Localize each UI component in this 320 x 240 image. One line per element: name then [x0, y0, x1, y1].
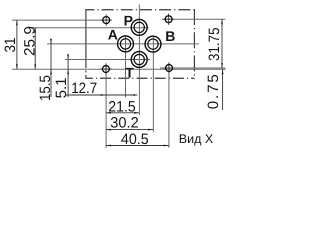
node A extension line down: [125, 35, 127, 98]
port A: [118, 36, 134, 52]
svg-text:T: T: [125, 65, 134, 81]
wire: body left edge: [85, 9, 87, 79]
bolt hole top-left: [103, 17, 110, 24]
svg-text:31.75: 31.75: [206, 27, 223, 61]
svg-text:0.75: 0.75: [205, 74, 222, 109]
svg-text:31: 31: [2, 38, 19, 53]
bolt BL crosshair: [100, 63, 111, 74]
bolt hole top-right: [165, 16, 172, 23]
wire: body right edge: [193, 9, 195, 79]
node B extension line down: [152, 36, 154, 133]
bolt BR crosshair: [163, 62, 174, 73]
dimension 15.5 line: [50, 39, 52, 98]
dimension 12.7 line: [66, 94, 137, 96]
svg-text:Вид X: Вид X: [179, 132, 214, 146]
extension line top bolt row left: [12, 19, 112, 21]
node P horizontal crosshair / extension: [31, 27, 149, 29]
bolt TL crosshair: [101, 14, 112, 25]
dimension 40.5 line: [106, 145, 169, 147]
bolt hole bottom-left: [102, 66, 109, 73]
extension line bolt left column down: [105, 65, 107, 148]
valve body outline (dashed rectangle): [86, 9, 194, 79]
svg-text:15.5: 15.5: [37, 75, 54, 101]
extension line bottom bolt row left (y=0): [12, 68, 226, 70]
port B: [145, 36, 161, 52]
extension line top bolt row right: [162, 18, 226, 20]
svg-text:21.5: 21.5: [108, 98, 136, 115]
svg-text:40.5: 40.5: [121, 131, 149, 148]
bolt TR crosshair: [163, 14, 174, 25]
port T: [131, 52, 147, 68]
svg-text:25.9: 25.9: [21, 26, 38, 56]
centerline horizontal through A and B: [47, 43, 199, 45]
wire: body top edge: [86, 9, 194, 11]
svg-text:B: B: [165, 28, 175, 44]
extension line bottom-right bolt row (y=0.75): [160, 67, 226, 69]
port P: [131, 19, 147, 35]
svg-text:A: A: [108, 26, 118, 42]
svg-text:P: P: [124, 12, 133, 28]
wire: body bottom edge: [86, 77, 194, 79]
dimension 31.75 line: [221, 19, 223, 68]
dimension 31 line: [16, 20, 18, 69]
centerline vertical through P and T: [138, 5, 140, 116]
dimension 5.1 line: [67, 54, 69, 97]
dimension 21.5 line: [106, 112, 139, 114]
dimension 30.2 line: [106, 129, 153, 131]
extension line bolt right column down: [168, 63, 170, 148]
dimension 0.75 line: [222, 69, 224, 110]
node T horizontal crosshair: [65, 59, 150, 61]
svg-text:12.7: 12.7: [71, 80, 97, 97]
bolt hole bottom-right: [166, 65, 173, 72]
svg-text:5.1: 5.1: [53, 77, 70, 98]
dimension 25.9 line: [34, 28, 36, 69]
svg-text:30.2: 30.2: [110, 115, 139, 132]
